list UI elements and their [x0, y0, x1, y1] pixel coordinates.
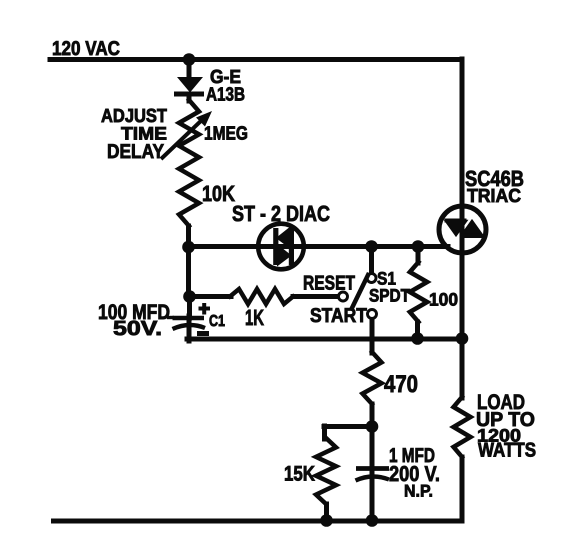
svg-text:WATTS: WATTS	[478, 440, 536, 462]
svg-text:C1: C1	[209, 313, 225, 330]
svg-text:SPDT: SPDT	[369, 286, 410, 306]
svg-text:10K: 10K	[202, 181, 235, 206]
svg-text:1MEG: 1MEG	[204, 124, 248, 145]
svg-text:START: START	[310, 305, 367, 327]
svg-text:1K: 1K	[245, 305, 264, 330]
svg-text:N.P.: N.P.	[404, 482, 433, 501]
svg-text:120 VAC: 120 VAC	[52, 38, 120, 60]
svg-text:DELAY: DELAY	[107, 141, 165, 163]
svg-text:470: 470	[384, 371, 418, 398]
svg-text:50V.: 50V.	[113, 317, 162, 340]
svg-text:TRIAC: TRIAC	[467, 186, 521, 207]
svg-text:A13B: A13B	[206, 85, 245, 106]
svg-text:RESET: RESET	[303, 273, 355, 295]
svg-text:100: 100	[429, 290, 458, 310]
svg-text:15K: 15K	[284, 463, 315, 486]
svg-text:ST - 2 DIAC: ST - 2 DIAC	[232, 201, 330, 226]
